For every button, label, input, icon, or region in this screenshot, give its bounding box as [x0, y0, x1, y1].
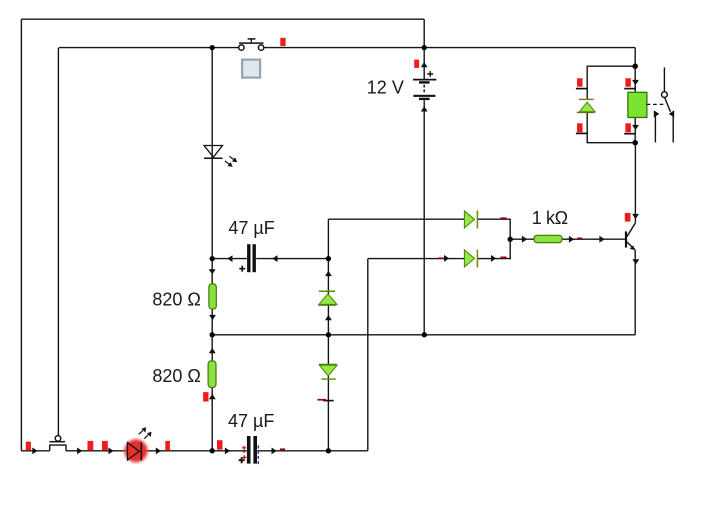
wire battery to bus [423, 48, 425, 335]
capacitor C1 47uF [239, 244, 256, 272]
svg-text:12 V: 12 V [367, 77, 404, 97]
LED D2 glow [122, 437, 150, 465]
arrow down collector [632, 214, 639, 219]
arrow down emitter wire [632, 259, 639, 264]
arrow left C1 a [227, 255, 232, 262]
node mid bus 2 [326, 332, 331, 337]
tick bottom 4 [165, 441, 170, 451]
red indicator ticks [26, 38, 631, 451]
tick relay diode top [577, 78, 583, 86]
node top-left bus [210, 45, 215, 50]
diode D3 up-pointing [318, 291, 337, 305]
push switch S2 [49, 436, 65, 442]
node relay top [632, 63, 638, 69]
wire bottom bus segment 1 [21, 450, 49, 452]
LED D2 (lit) [128, 427, 152, 460]
relay diode D7 [577, 99, 595, 112]
node C1 right [326, 256, 331, 261]
arrow down below R1 [209, 315, 216, 320]
capacitor C2 47uF [239, 436, 259, 464]
wire diode D5 out with corner [477, 219, 510, 258]
svg-text:47 µF: 47 µF [228, 411, 274, 431]
tick battery [414, 60, 419, 68]
resistor R1 820 [209, 284, 216, 309]
relay contact pivot [662, 92, 668, 98]
arrow down above R1 [209, 269, 216, 274]
wire mid branch x328 [327, 219, 329, 451]
diode D5 right-pointing [464, 211, 477, 229]
node battery top [422, 45, 427, 50]
wire base [510, 238, 625, 240]
relay contact common [663, 67, 665, 91]
arrow right bottom 5 [225, 448, 230, 455]
relay dashed link [646, 103, 663, 105]
svg-text:47 µF: 47 µF [228, 218, 274, 238]
wire collector run [634, 143, 636, 223]
dash after R3 [577, 238, 582, 239]
arrow down coil top [632, 80, 639, 85]
arrow right bottom 6 [272, 448, 277, 455]
wire battery top drop [423, 19, 425, 47]
dash after C2 [280, 448, 285, 450]
tick top switch [280, 38, 285, 46]
node bottom bus 1 [210, 448, 215, 453]
tick collector [625, 213, 631, 222]
svg-text:820 Ω: 820 Ω [152, 289, 201, 309]
wire top bus right of switch S1 [264, 47, 635, 49]
wire bottom-mid bus [212, 334, 635, 336]
arrow up above R2 [209, 348, 216, 353]
arrow right bottom 2 [77, 448, 82, 455]
arrow right after D6 [491, 255, 496, 262]
arrow right after R3 [569, 236, 574, 243]
node mid bus 1 [210, 332, 215, 337]
wire left branch x212 [211, 48, 213, 451]
arrow right bottom 1 [32, 448, 37, 455]
wire right branch x368 [367, 259, 369, 451]
arrow up below D3 [325, 315, 332, 320]
arrow up below R2 [209, 394, 216, 399]
arrow right bottom 3 [108, 448, 113, 455]
wire capacitor C1 left [212, 258, 247, 260]
arrow right before base [599, 236, 604, 243]
wire outer top [21, 18, 424, 20]
node relay bottom [632, 140, 638, 146]
battery B1 12V [413, 71, 436, 100]
arrow right into D6 [444, 255, 449, 262]
arrow down coil bottom [632, 125, 639, 130]
wire emitter run [634, 250, 636, 335]
tick coil top [625, 78, 631, 86]
transistor Q1 [625, 223, 636, 250]
relay throw contact left [654, 110, 659, 142]
node mid bus 3 [422, 332, 427, 337]
tick below R2 [203, 392, 208, 401]
diode D6 right-pointing [464, 250, 477, 268]
tick bottom 3 [102, 441, 108, 451]
svg-text:1 kΩ: 1 kΩ [532, 208, 568, 228]
arrow right bottom 4 [156, 448, 161, 455]
arrow up above D3 [325, 271, 332, 276]
relay terminal bars [576, 89, 636, 134]
LED D1 (off) [204, 146, 237, 167]
tick bottom 2 [88, 441, 94, 451]
dash before D6 [439, 257, 444, 259]
wire bottom bus segment 3 [257, 450, 368, 452]
tick bottom 1 [26, 442, 31, 451]
relay contact lever [665, 98, 671, 112]
dash after D6 [500, 257, 506, 259]
arrow up battery top [421, 62, 428, 67]
wire top bus left of switch S1 [59, 47, 239, 49]
wire push switch bridge [50, 445, 66, 451]
arrow left C1 b [272, 255, 277, 262]
tick relay diode bottom [577, 123, 583, 132]
resistor R2 820 [208, 361, 216, 388]
wire relay drop [634, 48, 636, 67]
resistor R3 1k [534, 235, 562, 242]
node C1 left [210, 256, 215, 261]
tick below D4 [323, 400, 334, 402]
wire bottom bus segment 2 [66, 450, 247, 452]
dash below D4 [318, 399, 327, 401]
node bottom bus 2 [326, 448, 331, 453]
arrow right after node [522, 236, 527, 243]
switch S1 push-to-make [239, 39, 264, 50]
wire relay diode branch [587, 66, 635, 143]
tick bottom 5 [217, 440, 223, 449]
wire capacitor C1 right [256, 258, 328, 260]
relay throw contact right [669, 110, 674, 142]
wire bus y219 to diode D5 [328, 218, 464, 220]
relay coil L1 [628, 92, 647, 117]
wire outer left [20, 19, 22, 451]
node diode join [508, 237, 513, 242]
current arrows [32, 62, 639, 454]
dash after D5 [500, 217, 506, 219]
dark red dashes [280, 217, 582, 450]
tick coil bottom [625, 123, 631, 132]
wire push-switch stem riser [57, 48, 59, 436]
switch S1 actuator button [242, 60, 260, 78]
arrow up battery bottom [421, 106, 428, 111]
diode D4 down-pointing [319, 364, 337, 379]
wire bus y258 to diode D6 [368, 258, 465, 260]
svg-text:820 Ω: 820 Ω [152, 366, 201, 386]
wire relay coil branch [634, 66, 636, 143]
